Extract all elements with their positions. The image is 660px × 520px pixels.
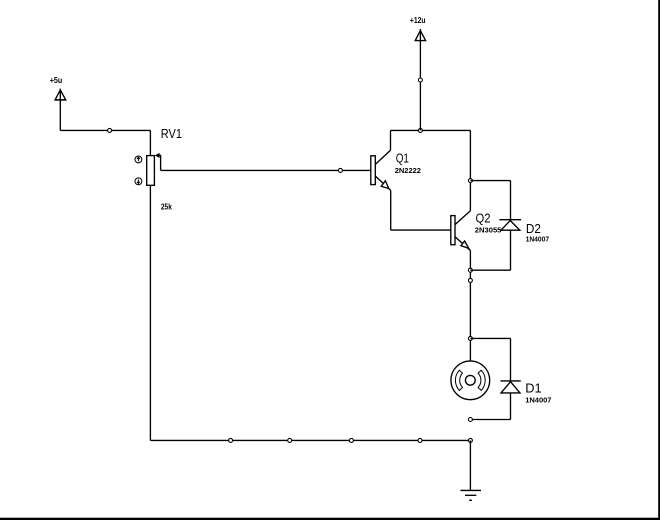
wire +5u down bbox=[59, 89, 61, 131]
RV1 up button bbox=[135, 156, 142, 163]
diode D2 triangle bbox=[501, 221, 520, 231]
node bottom 3 bbox=[349, 438, 353, 442]
wire Q1 emitter to Q2 base bbox=[391, 229, 451, 231]
wire to D2 top bbox=[470, 180, 510, 182]
svg-text:Q2: Q2 bbox=[476, 210, 491, 225]
power +5u base bar bbox=[55, 99, 66, 101]
wire RV1 top bbox=[149, 130, 151, 155]
node top rail bbox=[418, 128, 422, 132]
wire D1 top down bbox=[510, 338, 512, 381]
wire D1 top branch bbox=[470, 337, 510, 339]
node on +5u wire bbox=[108, 128, 112, 132]
svg-text:D1: D1 bbox=[525, 380, 541, 395]
power +12u triangle bbox=[415, 31, 425, 41]
node ground junction bbox=[468, 438, 472, 442]
Q2 emitter diagonal bbox=[455, 237, 470, 251]
node below Q2 bbox=[468, 268, 472, 272]
wire ground stem bbox=[469, 440, 471, 490]
window border bottom bbox=[0, 518, 660, 520]
Q1 collector diagonal bbox=[375, 150, 390, 164]
RV1 wiper arrow bbox=[158, 155, 161, 170]
motor inner hub bbox=[465, 375, 475, 385]
diode D1 bar bbox=[501, 380, 521, 382]
svg-text:1N4007: 1N4007 bbox=[526, 236, 550, 243]
motor left crescent bbox=[455, 370, 462, 390]
Q1 emitter arrow bbox=[381, 181, 389, 189]
transistor Q1 base bar bbox=[371, 156, 376, 185]
svg-text:2N3055: 2N3055 bbox=[475, 226, 502, 235]
node bottom 2 bbox=[288, 438, 292, 442]
wire D2 bottom branch bbox=[470, 269, 510, 271]
svg-text:+12u: +12u bbox=[410, 15, 426, 25]
wire RV1 wiper to Q1 base bbox=[161, 169, 371, 171]
wire right vertical bbox=[469, 130, 471, 210]
Q2 collector diagonal bbox=[455, 211, 470, 225]
svg-text:D2: D2 bbox=[526, 221, 541, 236]
RV1 down button bbox=[135, 178, 142, 185]
wire D2 top down bbox=[510, 181, 512, 220]
svg-text:2N2222: 2N2222 bbox=[395, 166, 421, 175]
wire +12u down bbox=[419, 41, 421, 131]
wire +5u to RV1 bbox=[60, 129, 150, 131]
node right vertical bbox=[468, 179, 472, 183]
wire D2 bottom up bbox=[510, 230, 512, 270]
wire top rail bbox=[391, 129, 471, 131]
wire D1 bottom branch bbox=[470, 419, 510, 421]
motor M1 body bbox=[451, 361, 490, 400]
node bottom 1 bbox=[229, 438, 233, 442]
svg-text:1N4007: 1N4007 bbox=[525, 395, 551, 404]
Q1 emitter diagonal bbox=[375, 176, 390, 190]
node motor top branch bbox=[468, 336, 472, 340]
svg-text:Q1: Q1 bbox=[396, 150, 409, 165]
window border right bbox=[658, 0, 660, 520]
svg-text:+5u: +5u bbox=[50, 75, 63, 85]
ground bar 2 bbox=[465, 494, 476, 496]
potentiometer RV1 body bbox=[147, 156, 155, 186]
Q1 emitter wire down bbox=[390, 190, 392, 230]
node on +12u wire bbox=[418, 78, 422, 82]
Q2 emitter arrow bbox=[461, 241, 469, 248]
power +12u stem bbox=[419, 29, 421, 41]
node on wiper wire bbox=[338, 168, 342, 172]
node motor bottom branch bbox=[468, 418, 472, 422]
node bottom 4 bbox=[418, 438, 422, 442]
node 2 below Q2 bbox=[468, 278, 472, 282]
ground bar 3 bbox=[469, 499, 472, 501]
wire RV1 bottom down bbox=[149, 185, 151, 440]
wire D1 bottom down bbox=[510, 393, 512, 420]
svg-text:25k: 25k bbox=[161, 201, 172, 211]
svg-text:RV1: RV1 bbox=[161, 126, 182, 141]
power +5u triangle bbox=[55, 90, 66, 100]
diode D2 bar bbox=[499, 219, 521, 221]
Q1 collector wire up bbox=[390, 130, 392, 150]
motor right crescent bbox=[478, 370, 485, 390]
wire bottom rail bbox=[150, 439, 470, 441]
transistor Q2 base bar bbox=[451, 216, 455, 245]
ground bar 1 bbox=[460, 489, 481, 491]
diode D1 triangle bbox=[501, 382, 520, 393]
Q2 emitter wire down bbox=[469, 251, 471, 361]
